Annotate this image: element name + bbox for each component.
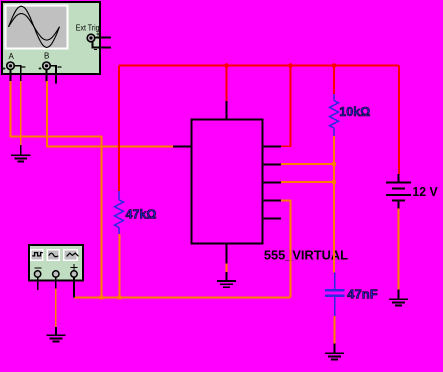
ground under capacitor [325,344,344,360]
svg-text:47nF: 47nF [347,287,378,302]
wire orange A minus to ground [20,81,22,146]
wire scope B minus L black stub [51,66,57,84]
wire red top rail [119,65,399,67]
wire red rail down to IC right pin1 [281,66,291,147]
555 U1 bottom pin [226,244,228,265]
wire orange R1 bottom to node [119,234,121,298]
wire scope A plus black stub [10,70,12,82]
wire red rail down to R1 47k top [118,66,120,192]
FG minus label [35,267,42,269]
555 U1 top pin [226,101,228,120]
junction 10k node lower [332,180,336,184]
FG sine wave icon [49,253,58,257]
resistor R2 10kOhm [330,94,339,136]
wire IC gnd pin orange gap [226,264,228,273]
wire FG common black stub [55,278,57,290]
svg-text:12 V: 12 V [412,184,438,199]
wire ext trig stub top [96,37,112,39]
ground under battery [389,290,408,306]
junction rail at R2 10k [332,63,337,68]
wire orange A plus down-right-down to node [11,81,102,298]
555 U1 right pin 4 [263,200,282,202]
wire orange B plus to IC left pin [47,81,176,147]
wire scope B plus black stub [46,70,48,82]
FG square wave icon [32,253,43,256]
svg-text:555_VIRTUAL: 555_VIRTUAL [264,248,348,263]
svg-text:Ext Trig: Ext Trig [76,24,100,33]
wire FG minus stub [37,278,39,291]
ground under FG [46,327,65,342]
oscilloscope Ext Trig connector [87,33,99,50]
wire orange IC pin3 to 10k node [281,181,334,183]
ground under 555 [217,272,236,287]
555 U1 right pin 3 [263,182,282,184]
wire orange battery minus down [398,209,400,291]
oscilloscope connector A [3,62,26,70]
wire FG common orange to ground [55,289,57,328]
FG connector common [53,271,59,277]
svg-text:B: B [44,52,49,61]
oscilloscope screen sine waves [9,6,60,47]
555 U1 right pin 2 [263,164,282,166]
wire scope A minus L black [15,66,21,82]
svg-text:A: A [9,52,15,61]
FG plus label [71,264,78,271]
wire orange bottom node rail [74,297,291,299]
wire orange 10k bottom down to capacitor [333,136,335,272]
function generator XFG1 body [29,245,83,281]
FG triangle wave icon [67,253,79,256]
555 U1 left pin [173,146,192,148]
oscilloscope XSC1 body [2,2,100,74]
wire ext trig stub bottom [93,42,112,48]
oscilloscope connector B [39,62,62,70]
FG connector minus [34,271,40,277]
resistor R1 47kOhm [115,191,124,234]
wire red rail down to IC top pin [226,66,228,102]
wire orange IC pin4 out down-left [281,201,291,298]
wire red rail down to R2 10k top [333,66,335,95]
wire orange IC pin2 to 10k node [281,163,334,165]
junction rail at pin1 drop [288,63,293,68]
ground under scope A minus [11,145,31,161]
FG connector plus [71,271,77,277]
555 U1 right pin 5 [263,218,282,220]
555 timer U1 body [192,120,263,244]
svg-text:47kΩ: 47kΩ [126,207,157,222]
junction 10k node upper [332,162,336,166]
svg-text:10kΩ: 10kΩ [339,104,370,119]
555 U1 right pin 1 [263,146,282,148]
junction rail at IC VCC [224,63,229,68]
wire orange capacitor bottom [334,316,336,345]
wire FG plus black stub down [73,278,75,298]
junction bottom node at A plus [100,296,104,300]
wire red rail down to battery plus [398,66,400,175]
capacitor C1 47nF [325,272,345,316]
battery V1 12V [386,174,411,209]
junction bottom node at R1 [118,296,122,300]
